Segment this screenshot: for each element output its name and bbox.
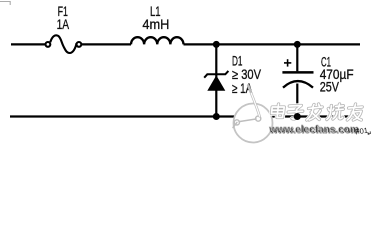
svg-text:www.elecfans.com: www.elecfans.com xyxy=(268,124,358,135)
svg-text:D1: D1 xyxy=(232,53,243,68)
svg-text:25V: 25V xyxy=(320,80,339,95)
svg-text:F01: F01 xyxy=(354,126,368,137)
svg-text:1A: 1A xyxy=(57,17,70,32)
svg-text:4mH: 4mH xyxy=(142,17,169,32)
